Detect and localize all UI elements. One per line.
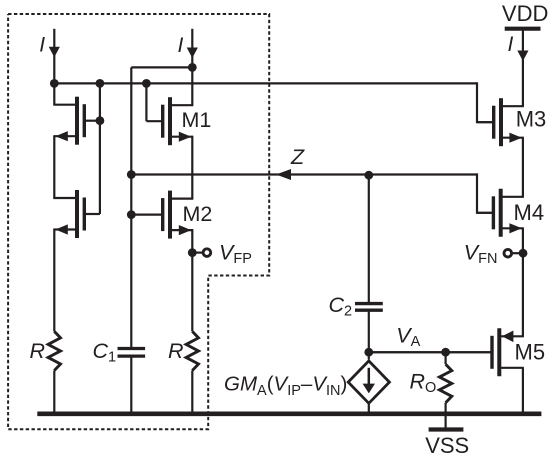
svg-text:M5: M5 (515, 340, 546, 365)
svg-text:VSS: VSS (425, 433, 469, 458)
svg-text:R: R (168, 339, 184, 363)
svg-text:VDD: VDD (502, 1, 548, 26)
svg-text:I: I (39, 34, 45, 57)
svg-text:Z: Z (290, 145, 305, 169)
svg-text:R: R (30, 339, 46, 363)
svg-text:I: I (508, 33, 514, 56)
svg-text:M2: M2 (183, 202, 213, 226)
svg-text:M4: M4 (514, 200, 545, 225)
svg-text:M3: M3 (516, 107, 547, 132)
svg-text:I: I (178, 34, 184, 57)
svg-text:M1: M1 (182, 108, 212, 132)
